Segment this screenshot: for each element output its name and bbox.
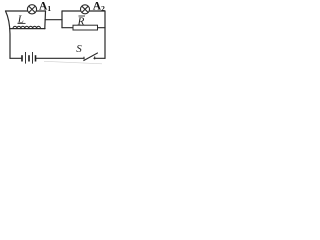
- lamp A1 (circle with X): [27, 5, 36, 14]
- faint scan artifact line: [44, 61, 102, 64]
- switch blade: [84, 53, 98, 61]
- battery short plate 3: [35, 55, 37, 61]
- svg-text:A2: A2: [93, 1, 105, 13]
- node J2 (right pair left junction) vertical: [61, 11, 63, 28]
- switch right terminal: [94, 57, 96, 59]
- wire resistor branch right: [97, 27, 105, 29]
- svg-text:S: S: [76, 43, 82, 55]
- svg-text:A1: A1: [39, 1, 51, 13]
- wire top-right section: [62, 10, 105, 12]
- svg-text:R: R: [77, 16, 85, 28]
- battery B1: [22, 52, 36, 64]
- coil baseline (branch of inductor L): [10, 28, 45, 30]
- wire battery to switch: [37, 57, 85, 59]
- resistor R (box): [73, 25, 98, 30]
- wire bottom-right from switch to corner: [94, 57, 105, 59]
- wire left vertical (skewed): [6, 11, 11, 58]
- battery short plate 1: [21, 55, 23, 61]
- label R overline: [79, 15, 86, 17]
- battery long plate 1: [25, 52, 27, 64]
- battery short plate 2: [28, 55, 30, 61]
- wire top-left (battery + to lamp A1): [6, 10, 46, 12]
- lamp A2 (circle with X): [81, 5, 90, 14]
- inductor coil L bumps: [13, 26, 41, 28]
- battery long plate 2: [32, 52, 34, 64]
- node J1 (left pair right junction) vertical: [44, 11, 47, 29]
- wire bottom-left to battery: [10, 57, 21, 59]
- switch left terminal: [83, 57, 85, 59]
- wire middle connector between parallel pairs: [45, 19, 62, 21]
- switch S: [84, 53, 98, 61]
- wire resistor branch left: [62, 27, 74, 29]
- wire right vertical: [104, 11, 106, 58]
- label L underline: [18, 22, 26, 24]
